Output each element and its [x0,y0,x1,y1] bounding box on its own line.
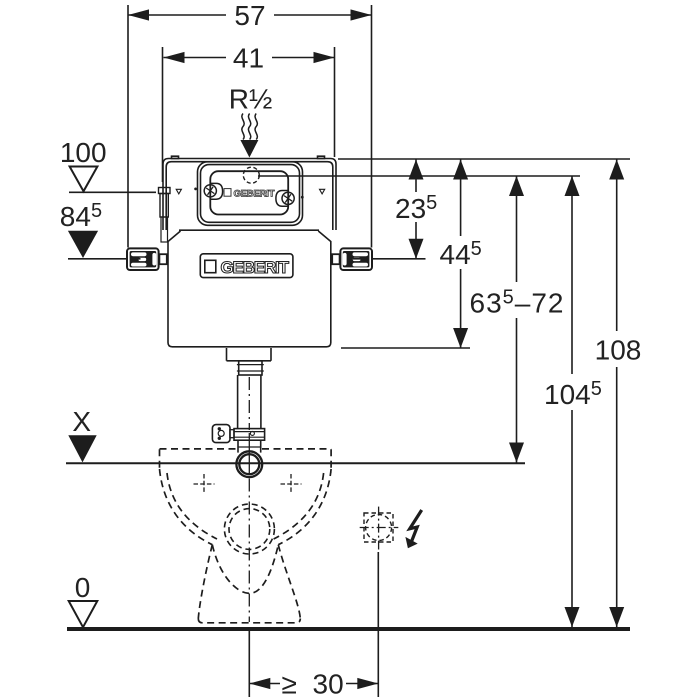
svg-text:X: X [72,406,91,437]
svg-text:108: 108 [595,335,642,366]
svg-text:635–72: 635–72 [470,287,565,319]
svg-text:0: 0 [75,572,91,603]
svg-text:57: 57 [234,0,265,31]
svg-text:41: 41 [233,43,264,74]
svg-text:GEBERIT: GEBERIT [234,188,275,199]
svg-text:100: 100 [60,137,107,168]
svg-text:≥: ≥ [282,669,297,700]
svg-text:GEBERIT: GEBERIT [221,258,290,277]
svg-text:30: 30 [313,669,344,700]
svg-text:R½: R½ [229,83,273,114]
